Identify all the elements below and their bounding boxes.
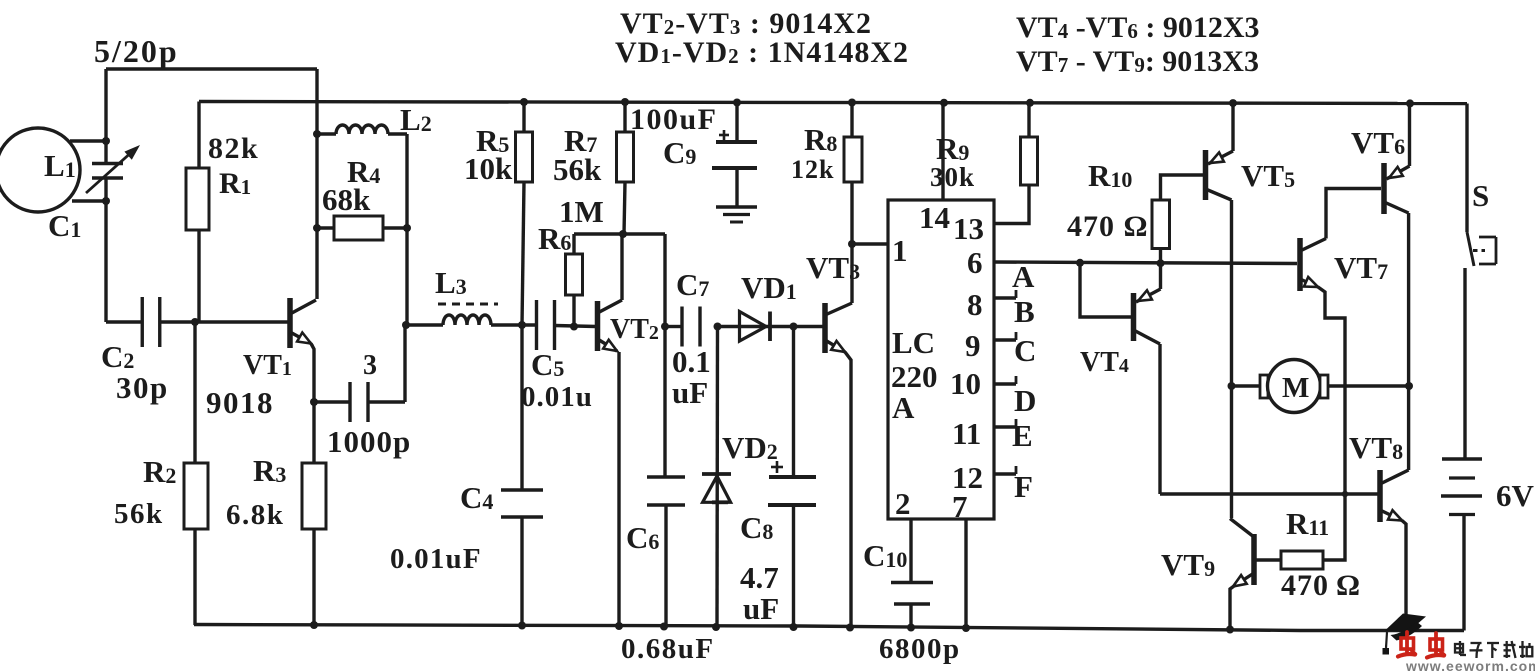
wire pin14 xyxy=(941,103,944,200)
svg-text:3: 3 xyxy=(363,350,377,381)
wire VT1 emitter xyxy=(311,344,314,464)
capacitor C1 variable 5/20p xyxy=(92,162,123,165)
node VT8 ground xyxy=(1402,626,1410,634)
node C10 ground xyxy=(907,624,915,632)
wire VT9 base xyxy=(1254,558,1282,561)
pin 8 stub xyxy=(994,296,1016,299)
wire L3 lead right xyxy=(491,323,535,326)
wire pin13 xyxy=(994,185,1029,224)
wire C4 top xyxy=(520,325,523,490)
svg-text:VT4​ -VT6​ : 9012X3: VT4​ -VT6​ : 9012X3 xyxy=(1016,11,1260,44)
core dashes L3 xyxy=(438,303,498,306)
watermark site name chars xyxy=(1455,641,1466,655)
node motor right xyxy=(1405,382,1413,390)
resistor R8 12k xyxy=(844,137,862,182)
capacitor C10 6800p xyxy=(891,581,933,585)
wire R7 bottom xyxy=(624,182,625,234)
transistor VT2 xyxy=(595,301,601,351)
resistor R5 10k xyxy=(516,132,533,182)
capacitor C5 0.01u xyxy=(535,300,538,350)
wire VT7 emitter xyxy=(1318,287,1345,494)
svg-text:6: 6 xyxy=(967,245,983,280)
node R4 right xyxy=(403,224,411,232)
node rail pin14 xyxy=(940,99,948,107)
wire motor left xyxy=(1232,384,1261,387)
transistor VT9 xyxy=(1251,534,1257,585)
node C7/C6 xyxy=(661,323,669,331)
wire R1 bottom xyxy=(197,230,200,322)
battery 6V xyxy=(1442,457,1482,461)
node VD2 ground xyxy=(712,623,720,631)
wire VT3 collector xyxy=(850,244,853,303)
svg-text:1M: 1M xyxy=(559,194,604,229)
diode VD1 1N4148 xyxy=(740,312,767,342)
resistor R9 30k xyxy=(1021,137,1038,185)
wire VT4 base xyxy=(1080,263,1131,317)
node R4 left xyxy=(313,224,321,232)
svg-text:9018: 9018 xyxy=(206,385,274,420)
wire C9 to ground xyxy=(735,168,738,207)
wire R10 bottom xyxy=(1159,249,1162,290)
node rail R7 xyxy=(621,98,629,106)
wire R8 top xyxy=(850,103,853,138)
svg-text:A: A xyxy=(892,390,915,425)
svg-text:D: D xyxy=(1014,383,1036,418)
wire 1000p right xyxy=(368,400,405,403)
wire VT2 collector xyxy=(620,234,623,300)
wire VT8 collector xyxy=(1407,386,1410,470)
switch S xyxy=(1467,232,1474,266)
svg-text:68k: 68k xyxy=(322,182,371,217)
svg-text:220: 220 xyxy=(891,359,938,394)
wire R11 right xyxy=(1323,494,1345,560)
wire pin7 xyxy=(964,519,967,628)
resistor R10 470ohm xyxy=(1152,200,1170,249)
wire VD2 vertical xyxy=(715,327,719,628)
transistor VT5 xyxy=(1203,150,1209,200)
wire R8 bottom xyxy=(850,182,853,244)
wire VT7 collector to VT6 base xyxy=(1326,189,1381,239)
wire C8 bottom xyxy=(792,505,795,627)
node VT4 base branch xyxy=(1076,259,1084,267)
node rail R5 xyxy=(520,98,528,106)
wire VT6 collector xyxy=(1407,213,1410,386)
svg-text:100uF: 100uF xyxy=(630,103,718,136)
wire pin6 output row xyxy=(994,262,1297,264)
wire C6 bottom xyxy=(664,505,667,627)
wire C4 bottom xyxy=(520,517,523,626)
node C8 top xyxy=(790,323,798,331)
svg-text:uF: uF xyxy=(743,591,779,626)
wire R9 top xyxy=(1027,103,1030,137)
node C4 ground xyxy=(518,622,526,630)
wire R6 top xyxy=(572,234,575,254)
node pin7 ground xyxy=(962,624,970,632)
svg-text:www.eeworm.com: www.eeworm.com xyxy=(1405,658,1535,672)
wire VT9 emitter xyxy=(1230,586,1234,630)
node VT2 emitter ground xyxy=(615,622,623,630)
node VT3 collector xyxy=(848,240,856,248)
op-amp U1 LC220A box xyxy=(888,200,994,519)
svg-text:30p: 30p xyxy=(116,370,169,405)
wire C2 left xyxy=(106,320,141,323)
svg-text:6800p: 6800p xyxy=(879,633,961,665)
svg-text:VD1​-VD2​ : 1N4148X2: VD1​-VD2​ : 1N4148X2 xyxy=(615,36,909,69)
resistor R11 470ohm xyxy=(1281,551,1323,569)
svg-text:5/20p: 5/20p xyxy=(94,33,179,69)
node VT2 collector xyxy=(619,230,627,238)
wire tank vertical xyxy=(104,69,107,164)
wire VT8 emitter xyxy=(1402,521,1406,631)
transistor VT6 xyxy=(1381,163,1387,214)
wire battery bottom xyxy=(1462,515,1465,631)
resistor R6 1M xyxy=(566,254,583,295)
svg-text:E: E xyxy=(1012,418,1033,453)
wire R2 top xyxy=(193,322,196,463)
capacitor C8 4.7uF xyxy=(769,475,816,479)
wire rail to switch xyxy=(1465,104,1468,233)
wire VT2 emitter xyxy=(617,352,620,626)
node C8 ground xyxy=(790,623,798,631)
wire to C7 xyxy=(665,325,681,328)
svg-text:56k: 56k xyxy=(553,152,602,187)
svg-text:F: F xyxy=(1014,469,1033,504)
node rail C9 xyxy=(733,99,741,107)
svg-text:14: 14 xyxy=(919,200,950,235)
wire VT5 collector xyxy=(1230,200,1233,386)
svg-text:6.8k: 6.8k xyxy=(226,499,284,531)
wire L3 lead left xyxy=(406,323,443,326)
wire R6 top row xyxy=(574,232,665,235)
wire base row xyxy=(160,320,289,323)
resistor R1 82k xyxy=(186,168,209,230)
resistor R3 6.8k xyxy=(302,463,326,529)
node VT8 base junction xyxy=(1342,491,1348,497)
svg-text:470 Ω: 470 Ω xyxy=(1067,210,1149,243)
wire VT5 emitter xyxy=(1231,103,1234,151)
resistor R4 68k xyxy=(334,216,383,240)
svg-text:M: M xyxy=(1282,372,1309,404)
svg-text:uF: uF xyxy=(672,375,708,410)
svg-text:8: 8 xyxy=(967,287,983,322)
wire VT3 emitter xyxy=(845,352,851,628)
node L3 left xyxy=(402,321,410,329)
node VT9 ground xyxy=(1226,626,1234,634)
wire VT8 base row xyxy=(1160,492,1378,495)
node R3 ground xyxy=(310,621,318,629)
wire tank top to collector xyxy=(106,67,317,70)
wire collector branch xyxy=(663,234,666,477)
svg-text:4.7: 4.7 xyxy=(740,560,779,595)
node motor left xyxy=(1228,382,1236,390)
wire R6 bottom xyxy=(572,295,575,327)
transistor VT7 xyxy=(1297,238,1303,291)
svg-text:11: 11 xyxy=(952,416,981,451)
capacitor C3 1000p xyxy=(348,382,351,422)
wire VT4 collector xyxy=(1158,344,1161,494)
pin 11 stub xyxy=(994,425,1016,428)
node VD2 top xyxy=(714,323,722,331)
wire R4 lead right xyxy=(383,226,407,229)
wire C8 top xyxy=(792,327,795,478)
diode VD2 zener xyxy=(703,476,731,502)
capacitor C2 30p xyxy=(141,297,144,347)
svg-text:9: 9 xyxy=(965,328,981,363)
node R1/C2/base xyxy=(191,318,199,326)
svg-text:6V: 6V xyxy=(1496,478,1535,513)
svg-text:12k: 12k xyxy=(791,155,834,184)
node rail R9 xyxy=(1026,99,1034,107)
wire VT9 collector xyxy=(1230,386,1233,518)
wire to pin1 xyxy=(852,242,888,245)
ground xyxy=(716,205,757,208)
svg-text:S: S xyxy=(1472,178,1489,213)
svg-text:470 Ω: 470 Ω xyxy=(1281,569,1361,602)
transistor VT1 9018 xyxy=(287,298,293,348)
capacitor C4 0.01uF xyxy=(501,488,543,491)
wire R5 bottom xyxy=(522,182,524,325)
wire motor right xyxy=(1328,384,1409,387)
capacitor C7 0.1uF xyxy=(680,307,683,347)
svg-text:A: A xyxy=(1012,259,1035,294)
node L1 top xyxy=(102,137,110,145)
node rail VT5 xyxy=(1229,99,1237,107)
wire pin2 xyxy=(909,519,912,582)
svg-text:13: 13 xyxy=(953,211,984,246)
svg-text:2: 2 xyxy=(895,486,911,521)
transistor VT8 xyxy=(1377,470,1383,522)
watermark cap logo xyxy=(1385,614,1426,633)
node rail R8 xyxy=(848,99,856,107)
svg-text:0.01uF: 0.01uF xyxy=(390,543,482,575)
node rail VT6 xyxy=(1406,99,1414,107)
wire R2 bottom xyxy=(193,529,196,625)
wire R4 lead left xyxy=(317,226,334,229)
pin 12 stub xyxy=(994,472,1016,475)
node L1 bottom xyxy=(102,197,110,205)
wire L2 lead right xyxy=(388,132,407,135)
node emitter/1000p xyxy=(310,398,318,406)
node R5/C4/C5 xyxy=(518,321,526,329)
wire 1000p left xyxy=(314,400,349,403)
wire VD1 through xyxy=(718,325,825,328)
svg-text:1: 1 xyxy=(892,233,908,268)
capacitor C9 100uF xyxy=(716,140,757,144)
pin 9 stub xyxy=(994,338,1016,341)
svg-text:10: 10 xyxy=(950,366,981,401)
wire VT6 emitter xyxy=(1408,103,1411,166)
wire R10 top to VT5 base xyxy=(1161,175,1204,200)
node VT3 emitter ground xyxy=(846,624,854,632)
wire C5 to VT2 base xyxy=(555,326,596,327)
wire R5 top xyxy=(522,102,525,132)
wire L2 lead left xyxy=(317,132,336,135)
svg-text:10k: 10k xyxy=(464,151,513,186)
inductor L2 xyxy=(336,125,388,134)
inductor L3 xyxy=(443,315,491,325)
transistor VT3 xyxy=(822,303,828,353)
svg-text:0.68uF: 0.68uF xyxy=(621,633,715,665)
svg-text:30k: 30k xyxy=(930,162,975,192)
wire top supply rail xyxy=(199,102,1467,104)
inductor L1 (loop antenna) xyxy=(0,128,80,212)
node R6 base xyxy=(570,323,578,331)
wire C10 bottom xyxy=(909,604,912,628)
node C6 ground xyxy=(660,623,668,631)
wire R1 top xyxy=(197,102,200,169)
wire R7 top xyxy=(623,102,626,132)
wire R3 bottom xyxy=(312,529,315,625)
wire C9 top xyxy=(735,103,738,141)
node L2 left xyxy=(313,130,321,138)
svg-text:56k: 56k xyxy=(114,498,164,530)
svg-text:0.01u: 0.01u xyxy=(521,381,593,413)
node R10 row xyxy=(1157,259,1165,267)
wire bottom ground rail xyxy=(194,625,1464,631)
resistor R7 56k xyxy=(617,132,634,182)
svg-text:82k: 82k xyxy=(208,132,259,165)
svg-text:B: B xyxy=(1014,294,1035,329)
wire switch to battery xyxy=(1463,268,1466,459)
svg-text:0.1: 0.1 xyxy=(672,344,711,379)
resistor R2 56k xyxy=(184,463,208,529)
pin 10 stub xyxy=(994,382,1016,385)
motor M xyxy=(1260,375,1268,398)
svg-text:C: C xyxy=(1014,333,1036,368)
svg-text:1000p: 1000p xyxy=(327,424,411,459)
watermark red worm chars xyxy=(1398,632,1416,657)
capacitor C6 0.68uF xyxy=(647,475,685,478)
transistor VT4 xyxy=(1131,293,1137,341)
svg-text:LC: LC xyxy=(892,325,935,360)
svg-text:7: 7 xyxy=(952,489,968,524)
